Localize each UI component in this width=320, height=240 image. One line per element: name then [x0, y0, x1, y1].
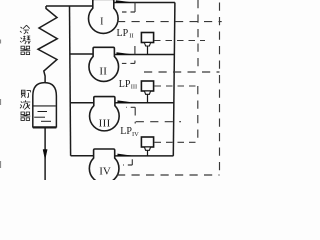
label LP IV: [120, 126, 139, 138]
receiver vessel: [33, 83, 57, 128]
器: [20, 112, 30, 120]
冷: [20, 25, 30, 34]
room IV wall stub: [131, 159, 133, 165]
scan edge marks: [0, 40, 2, 169]
svg-text:LP: LP: [120, 126, 132, 137]
arrow on receiver outlet: [43, 150, 47, 160]
凝: [20, 36, 30, 44]
wire suction line III: [115, 102, 174, 104]
room II wall stub: [134, 46, 136, 63]
svg-text:LP: LP: [119, 79, 131, 90]
svg-text:III: III: [99, 117, 111, 129]
svg-text:IV: IV: [132, 131, 139, 138]
label receiver 贮液器 (hand-drawn glyphs): [20, 90, 30, 120]
arrow on line III: [118, 101, 133, 103]
condenser coil (zigzag): [38, 6, 57, 83]
label LP II: [117, 28, 134, 40]
器: [20, 46, 30, 54]
arrow on line II: [117, 53, 131, 55]
receiver outlet pipe: [44, 128, 46, 180]
room III wall stub: [134, 107, 136, 123]
svg-text:III: III: [131, 83, 138, 90]
outer room right wall (v1 upper): [197, 0, 199, 71]
bottom room boundary: [117, 174, 220, 176]
room I wall stub: [134, 3, 136, 13]
valve LP-III body: [141, 81, 153, 103]
valve LP-II body: [141, 33, 153, 55]
wire branch to flask III left: [70, 102, 94, 104]
贮: [21, 90, 30, 97]
capillary from LP-II: [154, 40, 205, 42]
wire suction line IV: [115, 155, 174, 157]
wire suction line II: [114, 54, 174, 56]
label LP III: [119, 79, 137, 91]
wire condenser top line: [46, 5, 93, 7]
evaporator flask III: [90, 97, 120, 131]
wire right suction bus: [173, 3, 175, 156]
wire branch to flask II left: [70, 53, 93, 55]
room II bottom boundary: [144, 71, 220, 73]
svg-text:II: II: [99, 65, 107, 77]
液: [20, 100, 30, 109]
wire left bus vertical: [70, 6, 71, 156]
outermost right wall (v2): [219, 3, 221, 176]
evaporator flask I: [89, 0, 119, 33]
arrow on line I: [116, 1, 130, 3]
dashed room boundaries: [117, 0, 222, 175]
evaporator flask IV: [89, 149, 119, 183]
room II top boundary: [117, 21, 222, 23]
room III right wall (v1 lower): [197, 86, 199, 142]
svg-text:I: I: [100, 17, 103, 28]
svg-text:II: II: [129, 32, 133, 39]
svg-text:IV: IV: [99, 165, 111, 177]
room III bottom boundary: [136, 121, 181, 123]
valve LP-IV body: [141, 137, 153, 156]
capillary from LP-IV: [155, 141, 197, 143]
wire suction line I: [114, 2, 175, 4]
wire branch to flask IV left: [71, 155, 94, 157]
capillary from LP-III: [155, 85, 198, 87]
arrow on line IV: [118, 154, 132, 156]
svg-text:LP: LP: [117, 28, 129, 39]
label condenser 冷凝器 (hand-drawn glyphs): [20, 25, 30, 54]
evaporator flask II: [89, 47, 119, 81]
